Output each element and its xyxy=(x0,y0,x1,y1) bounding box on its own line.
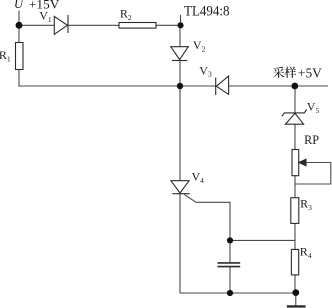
node TL494 junction xyxy=(177,22,183,28)
diode V3 xyxy=(216,76,229,95)
wire sampling node down to V5 cathode xyxy=(294,86,296,113)
potentiometer RP xyxy=(292,150,306,176)
svg-text:V2: V2 xyxy=(193,38,206,53)
diode V1 xyxy=(54,15,68,34)
node capacitor bottom junction xyxy=(227,290,233,296)
svg-text:R1: R1 xyxy=(0,48,11,63)
wire ground lead xyxy=(295,293,297,306)
wire gate node to capacitor top plate xyxy=(229,240,231,262)
thyristor V4 xyxy=(171,181,190,194)
wire TL494 node down to V2 anode xyxy=(179,25,181,46)
svg-text:R3: R3 xyxy=(300,197,312,212)
wire RP bottom to R3 top xyxy=(294,176,296,198)
svg-text:V5: V5 xyxy=(307,99,320,114)
svg-text:+5V: +5V xyxy=(298,66,322,81)
node U junction xyxy=(16,22,23,29)
wire V4 gate lead xyxy=(184,194,230,240)
wire sampling node to right edge xyxy=(295,85,328,87)
wire V2 cathode down to middle rail junction xyxy=(179,61,181,87)
wire V1 cathode to R2 xyxy=(68,24,119,26)
wire R2 to TL494:8 node xyxy=(156,24,181,26)
wire V4 cathode down to bottom rail corner xyxy=(180,194,296,293)
diode V2 xyxy=(171,47,189,61)
node middle rail junction xyxy=(177,83,183,89)
wire R4 bottom to bottom rail dot xyxy=(294,275,296,293)
node sampling +5V junction xyxy=(291,83,298,90)
wire RP wiper loop xyxy=(295,163,331,185)
node bottom right junction xyxy=(292,289,299,296)
svg-text:V3: V3 xyxy=(199,63,212,78)
svg-text:R2: R2 xyxy=(120,7,132,22)
node U input lead xyxy=(18,11,20,26)
ground xyxy=(287,305,306,307)
wire V5 anode down to RP top xyxy=(294,124,296,149)
wire R3 bottom to junction xyxy=(294,223,296,240)
wire stub up to TL494:8 pin xyxy=(180,15,182,25)
svg-text:RP: RP xyxy=(304,133,319,147)
svg-text:TL494:8: TL494:8 xyxy=(184,3,230,19)
svg-text:U: U xyxy=(14,0,24,11)
label sampling +5V xyxy=(273,66,322,81)
wire gate node to R3 R4 junction xyxy=(230,239,295,241)
capacitor C xyxy=(218,263,241,267)
resistor R4 xyxy=(291,249,298,275)
zener diode V5 xyxy=(282,110,307,125)
resistor R1 xyxy=(16,43,24,70)
wire R1 bottom down to middle rail corner xyxy=(19,70,216,87)
node gate junction xyxy=(227,237,233,243)
resistor R3 xyxy=(291,198,299,224)
wire node U dot down to R1 xyxy=(18,25,20,42)
resistor R2 xyxy=(119,23,156,29)
wire top rail left: node U dot to V1 anode xyxy=(19,24,55,26)
wire middle rail junction down to V4 anode xyxy=(179,86,181,181)
wire junction to R4 top xyxy=(294,240,296,249)
wire capacitor bottom plate to bottom rail xyxy=(229,267,231,293)
wire V3 anode to sampling node xyxy=(229,85,295,87)
svg-text:R4: R4 xyxy=(300,245,312,260)
svg-text:V4: V4 xyxy=(192,170,205,185)
